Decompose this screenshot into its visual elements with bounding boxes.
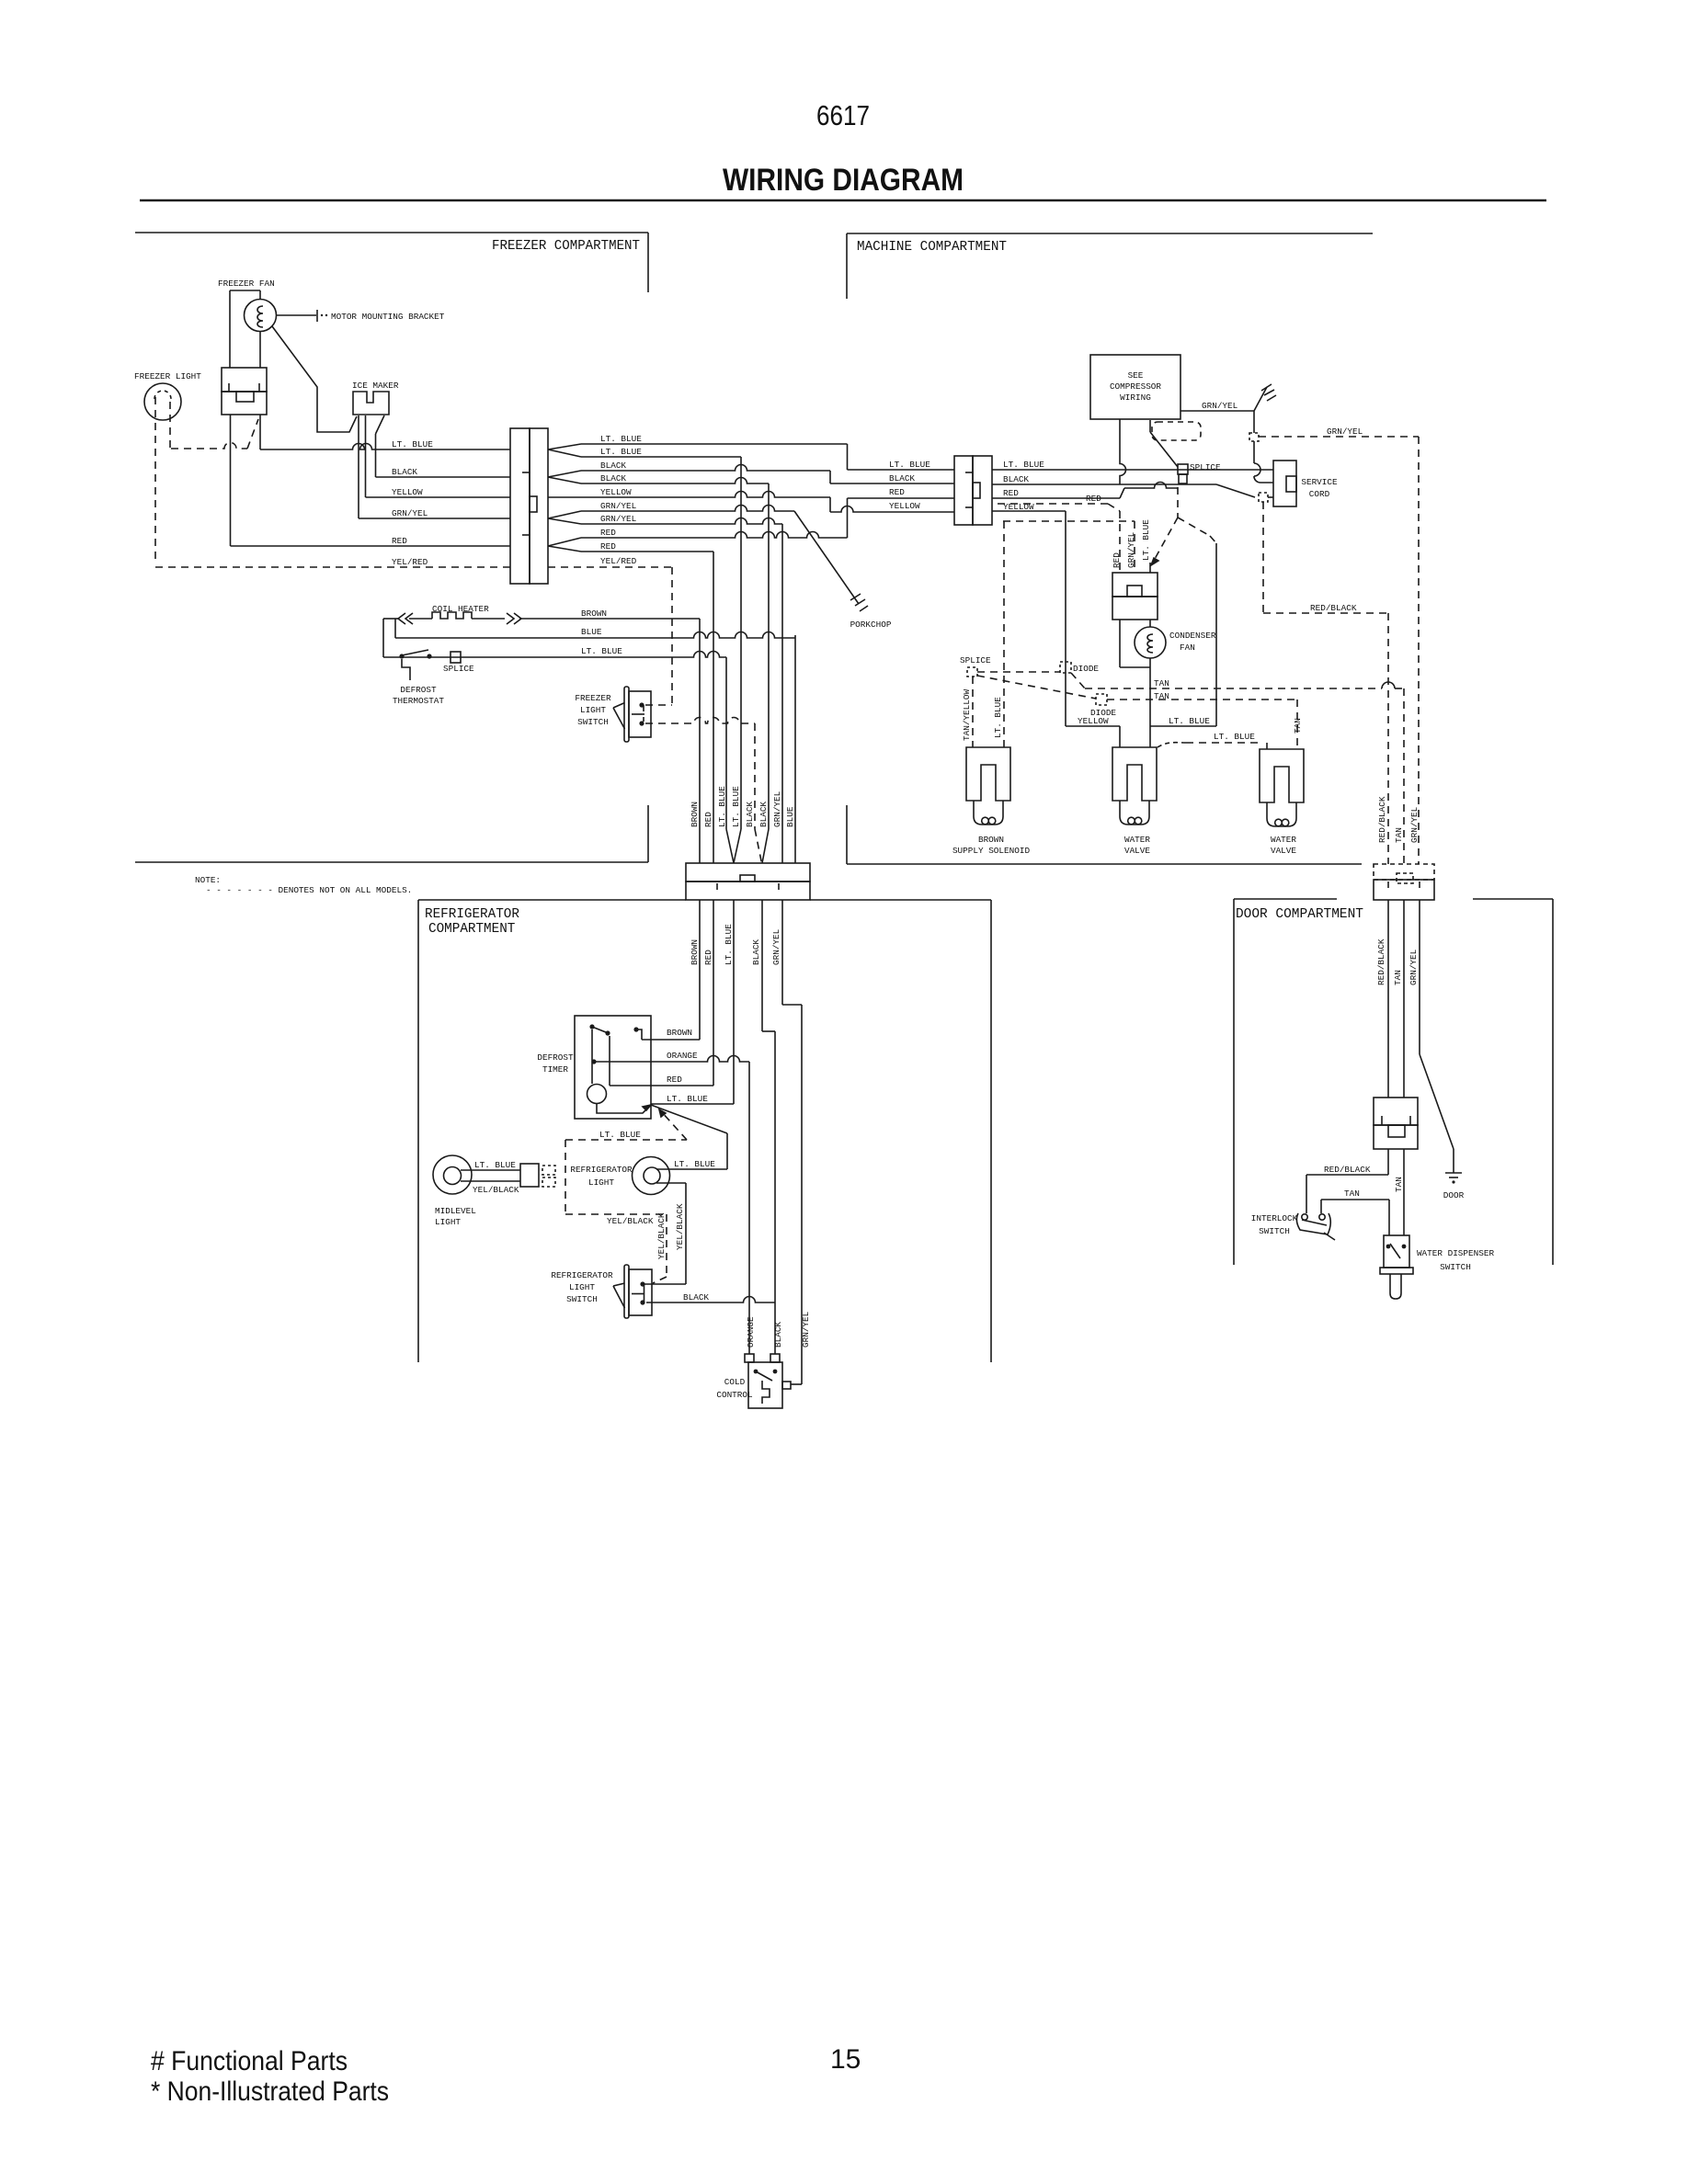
svg-text:RED/BLACK: RED/BLACK	[1376, 938, 1386, 985]
svg-text:RED: RED	[392, 536, 407, 546]
svg-text:LT. BLUE: LT. BLUE	[1169, 716, 1210, 726]
wire fan to ice maker	[272, 326, 357, 432]
water valve middle label	[1124, 835, 1150, 856]
svg-text:GRN/YEL: GRN/YEL	[771, 928, 781, 965]
svg-text:SWITCH: SWITCH	[566, 1294, 598, 1304]
svg-text:6617: 6617	[816, 99, 870, 131]
wire yel/red row dashed	[548, 566, 672, 568]
dashed tan/yellow to left valve	[972, 677, 974, 747]
dashed lt. blue relay arrow	[1151, 487, 1216, 565]
rotated yel/black labels	[656, 1203, 685, 1259]
wire lt. blue from timer	[651, 1103, 734, 1105]
machine compartment border	[847, 233, 1373, 864]
wire grn/yel door	[1420, 900, 1454, 1149]
wire red freezer row	[231, 415, 511, 546]
wire red row A	[581, 498, 954, 538]
splice on lt. blue	[451, 652, 461, 663]
svg-text:BLACK: BLACK	[600, 461, 626, 471]
splice dashed water	[967, 667, 977, 677]
svg-text:WIRING DIAGRAM: WIRING DIAGRAM	[723, 163, 964, 198]
wire lt. blue to service cord	[992, 469, 1273, 471]
svg-text:GRN/YEL: GRN/YEL	[1409, 949, 1419, 985]
wire yel/red to switch dashed	[645, 567, 672, 705]
wire red/black dashed	[1263, 502, 1388, 864]
svg-text:TAN: TAN	[1154, 678, 1169, 688]
svg-text:TAN: TAN	[1394, 827, 1404, 843]
wire black jog vertical	[762, 900, 775, 1354]
svg-text:DEFROST: DEFROST	[400, 685, 437, 695]
svg-text:LT. BLUE: LT. BLUE	[717, 786, 727, 827]
splice	[1178, 464, 1188, 483]
svg-text:DIODE: DIODE	[1073, 664, 1099, 674]
svg-text:WATER: WATER	[1271, 835, 1296, 845]
wire black vertical	[762, 483, 769, 863]
svg-text:LT. BLUE: LT. BLUE	[1141, 519, 1151, 561]
svg-text:GRN/YEL: GRN/YEL	[600, 514, 637, 524]
svg-text:RED: RED	[1003, 488, 1019, 498]
svg-text:RED: RED	[600, 528, 616, 538]
svg-text:RED: RED	[1086, 494, 1101, 504]
svg-text:DOOR COMPARTMENT: DOOR COMPARTMENT	[1236, 907, 1363, 922]
svg-text:LT. BLUE: LT. BLUE	[667, 1094, 708, 1104]
door wiring connector	[1374, 1098, 1418, 1149]
wire black from switch	[646, 1297, 775, 1302]
supply solenoid label	[952, 835, 1031, 856]
svg-text:TAN: TAN	[1344, 1189, 1360, 1199]
svg-text:YELLOW: YELLOW	[392, 487, 423, 497]
svg-text:RED/BLACK: RED/BLACK	[1377, 796, 1387, 843]
defrost thermostat label	[393, 685, 444, 706]
ice maker pin wires	[359, 415, 384, 434]
svg-text:RED/BLACK: RED/BLACK	[1310, 603, 1357, 613]
svg-text:COMPRESSOR: COMPRESSOR	[1110, 381, 1161, 392]
svg-text:LT. BLUE: LT. BLUE	[731, 786, 741, 827]
wire compressor pin to black row	[1120, 419, 1126, 484]
svg-text:SPLICE: SPLICE	[960, 655, 991, 665]
svg-text:GRN/YEL: GRN/YEL	[600, 501, 637, 511]
cold control label	[716, 1377, 753, 1400]
wire lt. blue thermostat row	[383, 652, 726, 657]
svg-text:MACHINE COMPARTMENT: MACHINE COMPARTMENT	[857, 240, 1007, 255]
wire blue row	[395, 619, 795, 638]
svg-text:SPLICE: SPLICE	[443, 664, 474, 674]
connector1 fork red	[548, 538, 581, 546]
diode 2	[1096, 694, 1107, 705]
svg-text:ICE MAKER: ICE MAKER	[352, 381, 399, 391]
svg-text:YEL/BLACK: YEL/BLACK	[473, 1185, 519, 1195]
wire grn/yel to ground	[1180, 384, 1276, 411]
water valve right	[1260, 749, 1304, 802]
dashed grn/yel relay pin	[1003, 521, 1135, 573]
svg-text:LT. BLUE: LT. BLUE	[581, 646, 622, 656]
wire midlevel yel/black	[461, 1180, 520, 1182]
defrost timer box	[575, 1016, 651, 1119]
water dispenser switch	[1380, 1235, 1413, 1299]
midlevel light label	[435, 1206, 476, 1227]
connector freezer-machine 2	[954, 456, 992, 525]
wire grn/yel jog vertical	[782, 900, 802, 1384]
bundle labels below connector	[690, 924, 781, 965]
refrigerator light label	[570, 1165, 633, 1188]
dashed red to relay	[998, 504, 1120, 573]
door ground	[1445, 1149, 1462, 1184]
freezer light switch label	[575, 693, 611, 727]
svg-text:GRN/YEL: GRN/YEL	[1327, 427, 1363, 437]
svg-text:DEFROST: DEFROST	[537, 1052, 574, 1063]
svg-text:LIGHT: LIGHT	[588, 1177, 614, 1188]
tan labels	[1154, 678, 1169, 701]
svg-text:RED: RED	[1112, 552, 1122, 568]
svg-text:REFRIGERATOR: REFRIGERATOR	[570, 1165, 633, 1175]
svg-text:ORANGE: ORANGE	[746, 1316, 756, 1348]
svg-text:YELLOW: YELLOW	[600, 487, 632, 497]
connector freezer-machine	[510, 428, 548, 584]
defrost thermostat	[399, 650, 431, 680]
wire lt. blue to defrost timer	[733, 900, 735, 1104]
freezer light	[144, 383, 181, 420]
wire yellow to valve	[1066, 726, 1120, 747]
see compressor wiring label	[1110, 370, 1161, 403]
wire brown vertical	[699, 619, 701, 863]
wire red vertical	[713, 552, 714, 863]
rotated labels cold control wires	[746, 1311, 811, 1348]
svg-text:RED: RED	[889, 487, 905, 497]
svg-text:FREEZER LIGHT: FREEZER LIGHT	[134, 371, 201, 381]
freezer light switch	[613, 687, 651, 742]
svg-text:GRN/YEL: GRN/YEL	[392, 508, 428, 518]
svg-text:INTERLOCK: INTERLOCK	[1251, 1213, 1298, 1223]
wire grn/yel row A to porkchop	[581, 506, 794, 511]
svg-text:DIODE: DIODE	[1090, 708, 1116, 718]
wire grn/yel dashed to door	[1259, 437, 1419, 864]
wire ice maker black drop	[375, 434, 377, 477]
wire lt. blue row A	[581, 444, 954, 470]
svg-text:MIDLEVEL: MIDLEVEL	[435, 1206, 476, 1216]
rotated labels left valve	[962, 689, 1003, 741]
dashed tan lower to right valve	[1107, 700, 1297, 749]
svg-text:GRN/YEL: GRN/YEL	[772, 791, 782, 827]
wire red/black to interlock	[1306, 1175, 1388, 1213]
svg-text:SUPPLY SOLENOID: SUPPLY SOLENOID	[952, 846, 1031, 856]
svg-text:COMPARTMENT: COMPARTMENT	[428, 922, 516, 937]
svg-text:RED: RED	[667, 1075, 682, 1085]
svg-text:LT. BLUE: LT. BLUE	[674, 1159, 715, 1169]
water dispenser switch label	[1417, 1248, 1495, 1272]
svg-text:SWITCH: SWITCH	[577, 717, 609, 727]
wire lt. blue valve loop	[1150, 543, 1216, 747]
coil heater	[383, 612, 521, 657]
wire yel/red freezer row dashed	[155, 566, 510, 568]
connector1 fork lt. blue	[548, 444, 581, 449]
svg-text:MOTOR MOUNTING BRACKET: MOTOR MOUNTING BRACKET	[331, 312, 445, 322]
wire red row B to bundle	[581, 551, 713, 552]
see compressor wiring box	[1090, 355, 1180, 419]
freezer compartment border	[135, 233, 648, 862]
wire tan door	[1403, 900, 1405, 1235]
svg-text:* Non-Illustrated Parts: * Non-Illustrated Parts	[151, 2076, 389, 2107]
svg-text:RED: RED	[600, 541, 616, 552]
service cord	[1273, 461, 1296, 506]
svg-text:REFRIGERATOR: REFRIGERATOR	[425, 907, 519, 922]
svg-text:BLUE: BLUE	[581, 627, 602, 637]
svg-text:TAN: TAN	[1293, 718, 1303, 734]
svg-text:ORANGE: ORANGE	[667, 1051, 698, 1061]
wire black row B to bundle	[581, 478, 769, 484]
svg-text:WATER: WATER	[1124, 835, 1150, 845]
interlock switch	[1296, 1213, 1335, 1240]
diode 1	[1060, 662, 1071, 673]
svg-text:WIRING: WIRING	[1120, 392, 1151, 403]
svg-text:BLACK: BLACK	[773, 1322, 783, 1348]
svg-text:BROWN: BROWN	[978, 835, 1004, 845]
connector1 fork black	[548, 471, 581, 477]
wire blue vertical	[794, 635, 796, 863]
svg-text:RED: RED	[703, 950, 713, 965]
freezer fan motor	[230, 290, 277, 368]
svg-text:BLACK: BLACK	[889, 473, 915, 483]
wire yel/black dashed vertical	[653, 1214, 667, 1283]
svg-text:VALVE: VALVE	[1271, 846, 1296, 856]
wire yellow machine	[992, 511, 1066, 726]
wire tan interlock to dispenser	[1321, 1200, 1389, 1235]
svg-text:LT. BLUE: LT. BLUE	[600, 447, 642, 457]
wire brown to defrost timer	[642, 900, 700, 1040]
svg-text:BLACK: BLACK	[1003, 474, 1029, 484]
svg-text:GRN/YEL: GRN/YEL	[1202, 401, 1238, 411]
svg-text:# Functional Parts: # Functional Parts	[151, 2046, 348, 2076]
refrigerator compartment border	[418, 900, 991, 1362]
dashed splice to diode 2	[977, 676, 1096, 699]
svg-text:YEL/BLACK: YEL/BLACK	[607, 1216, 654, 1226]
svg-text:LIGHT: LIGHT	[569, 1282, 595, 1292]
svg-text:SERVICE: SERVICE	[1301, 477, 1338, 487]
wire compressor pin to splice	[1150, 420, 1178, 467]
svg-text:BLACK: BLACK	[392, 467, 417, 477]
svg-text:RED: RED	[703, 812, 713, 827]
svg-text:YEL/RED: YEL/RED	[392, 557, 428, 567]
svg-text:LIGHT: LIGHT	[435, 1217, 461, 1227]
svg-text:SPLICE: SPLICE	[1190, 462, 1221, 472]
door connector	[1374, 864, 1434, 900]
dashed lt. blue to left valve	[1003, 521, 1005, 747]
svg-text:FREEZER: FREEZER	[575, 693, 611, 703]
svg-text:WATER DISPENSER: WATER DISPENSER	[1417, 1248, 1495, 1258]
wire black row A	[581, 465, 954, 483]
wire grn/yel vertical	[781, 524, 783, 863]
refrigerator compartment label	[425, 907, 519, 937]
wire grn/yel freezer row	[359, 518, 510, 519]
svg-text:LT. BLUE: LT. BLUE	[724, 924, 734, 965]
svg-text:REFRIGERATOR: REFRIGERATOR	[551, 1270, 613, 1280]
svg-text:COLD: COLD	[724, 1377, 746, 1387]
wire red to defrost timer	[713, 900, 714, 1086]
svg-text:BROWN: BROWN	[581, 609, 607, 619]
wire red/black door	[1387, 900, 1389, 1175]
svg-text:FREEZER COMPARTMENT: FREEZER COMPARTMENT	[492, 239, 640, 254]
cold control	[745, 1354, 791, 1408]
svg-text:LT. BLUE: LT. BLUE	[889, 460, 930, 470]
refrigerator light	[633, 1157, 670, 1195]
refrigerator light switch	[613, 1265, 652, 1318]
svg-text:LT. BLUE: LT. BLUE	[993, 697, 1003, 738]
svg-text:LT. BLUE: LT. BLUE	[600, 434, 642, 444]
svg-text:RED/BLACK: RED/BLACK	[1324, 1165, 1371, 1175]
svg-text:CORD: CORD	[1309, 489, 1330, 499]
svg-text:YEL/BLACK: YEL/BLACK	[675, 1203, 685, 1250]
svg-text:LT. BLUE: LT. BLUE	[1003, 460, 1044, 470]
svg-text:SWITCH: SWITCH	[1259, 1226, 1290, 1236]
svg-text:LT. BLUE: LT. BLUE	[392, 439, 433, 449]
svg-text:VALVE: VALVE	[1124, 846, 1150, 856]
interlock switch label	[1251, 1213, 1298, 1236]
rotated labels above door connector	[1377, 796, 1420, 843]
service cord label	[1301, 477, 1338, 499]
svg-text:YEL/BLACK: YEL/BLACK	[656, 1212, 667, 1259]
wire brown row	[519, 618, 700, 620]
svg-text:FAN: FAN	[1180, 643, 1195, 653]
svg-text:- - - - - - - DENOTES NOT ON A: - - - - - - - DENOTES NOT ON ALL MODELS.	[206, 885, 412, 895]
wire yellow row	[548, 492, 954, 513]
wire switch black dashed	[645, 718, 762, 864]
svg-text:BROWN: BROWN	[690, 802, 700, 827]
svg-text:BROWN: BROWN	[667, 1028, 692, 1038]
wire ice maker grn/yel drop	[358, 429, 359, 518]
svg-text:CONDENSER: CONDENSER	[1169, 631, 1216, 641]
svg-text:BLACK: BLACK	[683, 1292, 709, 1302]
wire grn/yel to service cord	[1254, 411, 1273, 483]
wire lt. blue vertical B	[734, 457, 741, 863]
wire refrigerator light yel/black	[644, 1183, 686, 1284]
svg-text:15: 15	[830, 2044, 861, 2075]
dashed splice red/black	[1259, 493, 1268, 502]
svg-text:TAN/YELLOW: TAN/YELLOW	[962, 689, 972, 741]
wire orange from timer	[594, 1056, 749, 1062]
wire lt. blue freezer row	[260, 415, 510, 449]
condenser fan	[1120, 620, 1166, 667]
wire red from timer	[610, 1085, 713, 1086]
svg-text:GRN/YEL: GRN/YEL	[801, 1311, 811, 1348]
rotated labels below door connector	[1376, 938, 1419, 985]
wire freezer light to fan connector dashed	[170, 402, 258, 449]
svg-text:BROWN: BROWN	[690, 939, 700, 965]
title underline	[140, 199, 1546, 202]
dashed splice grn/yel	[1249, 433, 1259, 441]
dashed lt. blue to right valve	[1158, 743, 1267, 749]
svg-text:GRN/YEL: GRN/YEL	[1126, 531, 1136, 568]
svg-text:DOOR: DOOR	[1443, 1190, 1465, 1200]
condenser fan label	[1169, 631, 1216, 653]
svg-text:TIMER: TIMER	[542, 1064, 568, 1075]
water valve right label	[1271, 835, 1296, 856]
connector1 fork grn/yel	[548, 511, 581, 518]
dashed lt. blue box refrigerator	[565, 1109, 687, 1214]
svg-text:GRN/YEL: GRN/YEL	[1409, 806, 1420, 843]
note text	[195, 875, 412, 895]
wire orange vertical to cold control	[748, 1062, 750, 1354]
wire grn/yel row B to bundle	[581, 518, 782, 524]
defrost timer label	[537, 1052, 574, 1075]
wire midlevel lt. blue	[461, 1169, 520, 1171]
svg-text:YEL/RED: YEL/RED	[600, 556, 637, 566]
wire lt. blue row B to bundle	[581, 456, 741, 458]
svg-text:NOTE:: NOTE:	[195, 875, 221, 885]
svg-text:LIGHT: LIGHT	[580, 705, 606, 715]
compressor relay	[1112, 563, 1158, 620]
svg-text:TAN: TAN	[1394, 1177, 1404, 1192]
svg-text:LT. BLUE: LT. BLUE	[599, 1130, 641, 1140]
svg-text:LT. BLUE: LT. BLUE	[1214, 732, 1255, 742]
ice maker	[353, 392, 389, 415]
midlevel light	[433, 1155, 472, 1194]
refrigerator light switch label	[551, 1270, 613, 1304]
svg-text:BLACK: BLACK	[745, 802, 755, 827]
wire black to service cord	[992, 484, 1273, 497]
svg-text:BLUE: BLUE	[785, 806, 795, 827]
svg-text:TAN: TAN	[1393, 970, 1403, 985]
wire yellow freezer row	[366, 496, 511, 498]
supply solenoid valve	[966, 747, 1010, 801]
door compartment border	[1234, 899, 1553, 1265]
svg-text:BLACK: BLACK	[758, 802, 769, 827]
porkchop ground	[794, 511, 868, 611]
dashed tan upper	[977, 672, 1404, 864]
svg-text:BLACK: BLACK	[751, 939, 761, 965]
motor mounting bracket	[276, 310, 445, 322]
svg-text:BLACK: BLACK	[600, 473, 626, 483]
svg-text:LT. BLUE: LT. BLUE	[474, 1160, 516, 1170]
svg-text:THERMOSTAT: THERMOSTAT	[393, 696, 444, 706]
wire freezer light dashed drop	[154, 397, 156, 564]
freezer fan connector	[222, 368, 267, 415]
rotated relay pin labels	[1112, 519, 1151, 568]
svg-text:SEE: SEE	[1128, 370, 1144, 381]
wire black freezer row	[376, 476, 511, 478]
water valve middle	[1112, 747, 1157, 801]
svg-text:YELLOW: YELLOW	[889, 501, 920, 511]
svg-text:CONTROL: CONTROL	[716, 1390, 753, 1400]
bundle labels above connector	[690, 786, 795, 827]
wire red machine	[992, 483, 1178, 498]
wire lt. blue vertical A	[726, 657, 734, 863]
dashed box compressor	[1152, 422, 1201, 440]
svg-text:PORKCHOP: PORKCHOP	[850, 620, 892, 630]
defrost timer internals	[587, 1024, 652, 1113]
svg-text:FREEZER FAN: FREEZER FAN	[218, 279, 275, 289]
wire refrigerator light lt. blue	[651, 1105, 727, 1169]
connector freezer-refrigerator	[686, 863, 810, 900]
midlevel light connector	[520, 1164, 555, 1187]
wire ice maker yellow drop	[365, 433, 367, 497]
svg-text:SWITCH: SWITCH	[1440, 1262, 1471, 1272]
